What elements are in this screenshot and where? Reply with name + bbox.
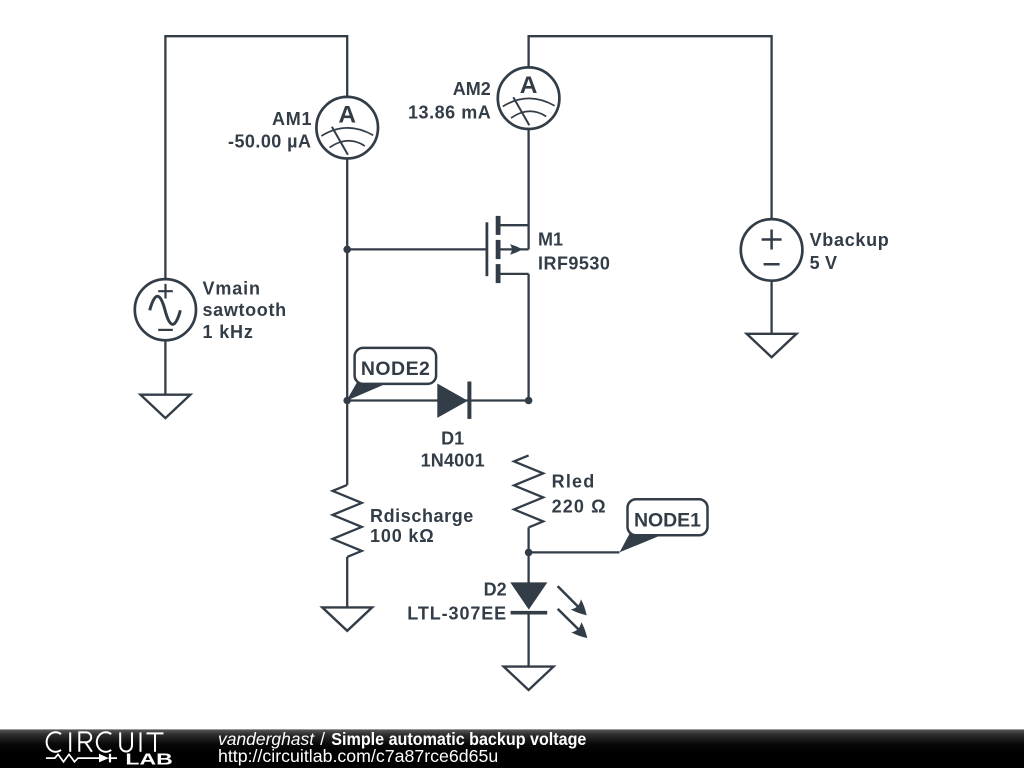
- svg-text:M1: M1: [538, 230, 563, 250]
- ground: [322, 607, 372, 630]
- CircuitLab logo: [47, 732, 164, 752]
- svg-text:13.86 mA: 13.86 mA: [408, 102, 491, 122]
- ground: [504, 667, 554, 690]
- resistor Rdischarge: [333, 485, 362, 557]
- svg-text:Rled: Rled: [552, 471, 595, 491]
- wire: [770, 281, 772, 334]
- ammeter AM1: [316, 97, 378, 159]
- svg-text:100 kΩ: 100 kΩ: [370, 526, 434, 546]
- svg-text:D2: D2: [484, 580, 507, 600]
- ground: [141, 395, 191, 418]
- wire: [347, 399, 528, 401]
- wire: [346, 557, 348, 608]
- svg-text:5 V: 5 V: [810, 253, 837, 273]
- svg-text:D1: D1: [441, 428, 464, 448]
- svg-text:1N4001: 1N4001: [421, 451, 485, 471]
- svg-text:220 Ω: 220 Ω: [552, 496, 606, 516]
- svg-text:AM2: AM2: [453, 79, 491, 99]
- wire: [527, 527, 529, 583]
- svg-text:LTL-307EE: LTL-307EE: [407, 603, 506, 623]
- svg-text:A: A: [338, 101, 356, 128]
- wire: [527, 274, 529, 401]
- svg-text:LAB: LAB: [125, 751, 172, 768]
- voltage source Vmain: [135, 279, 196, 340]
- wire: [165, 36, 347, 279]
- svg-text:-50.00 µA: -50.00 µA: [228, 132, 311, 152]
- junction node: [343, 246, 351, 254]
- junction node NODE2: [343, 397, 351, 405]
- svg-text:NODE2: NODE2: [361, 358, 430, 380]
- junction node NODE1: [525, 549, 533, 557]
- wire: [529, 36, 772, 219]
- svg-text:Vmain: Vmain: [203, 279, 261, 299]
- ammeter AM2: [498, 67, 560, 129]
- wire: [527, 129, 529, 250]
- svg-text:AM1: AM1: [272, 109, 312, 129]
- diode D1: [438, 382, 470, 419]
- svg-text:sawtooth: sawtooth: [203, 300, 287, 320]
- node label NODE1: [620, 499, 708, 552]
- svg-text:1 kHz: 1 kHz: [203, 322, 253, 342]
- resistor Rled: [514, 455, 543, 527]
- wire: [527, 613, 529, 667]
- svg-text:IRF9530: IRF9530: [538, 253, 610, 273]
- svg-text:Rdischarge: Rdischarge: [370, 506, 473, 526]
- svg-text:http://circuitlab.com/c7a87rce: http://circuitlab.com/c7a87rce6d65u: [218, 746, 498, 766]
- wire: [164, 340, 166, 394]
- svg-text:NODE1: NODE1: [634, 509, 701, 531]
- LED D2: [511, 583, 588, 638]
- junction node: [525, 397, 533, 405]
- footer bar: [0, 729, 1024, 768]
- ground: [747, 334, 797, 357]
- wire: [346, 159, 348, 485]
- wire: [529, 551, 620, 553]
- node label NODE2: [346, 348, 436, 401]
- voltage source Vbackup: [741, 219, 803, 281]
- wire: [347, 248, 487, 250]
- transistor M1 (PMOS IRF9530): [487, 216, 529, 283]
- svg-text:Vbackup: Vbackup: [810, 230, 889, 250]
- svg-text:A: A: [520, 72, 538, 99]
